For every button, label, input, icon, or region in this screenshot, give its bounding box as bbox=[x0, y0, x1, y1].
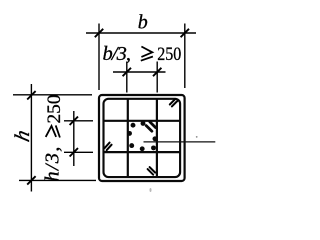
corner hatch middle-left cell bbox=[105, 143, 112, 151]
extension line h bottom bbox=[19, 179, 96, 181]
inner tie vertical leg 2 bbox=[156, 98, 158, 178]
dimension line b/3 bbox=[113, 71, 166, 73]
extension line h/3 bottom bbox=[64, 151, 93, 153]
tick h top bbox=[27, 91, 35, 99]
inner tie vertical leg 1 bbox=[127, 98, 129, 178]
label >= (rotated) bbox=[46, 125, 60, 137]
svg-text:b: b bbox=[138, 11, 148, 33]
extension line b/3 right bbox=[156, 62, 158, 93]
extension line h/3 top bbox=[64, 120, 93, 122]
column outer section outline bbox=[99, 95, 185, 181]
faint caption speck bbox=[150, 188, 152, 192]
core longitudinal bar dots bbox=[127, 121, 157, 151]
dimension line b bbox=[86, 32, 196, 34]
tick h bottom bbox=[27, 176, 35, 184]
corner hatch top-right cell bbox=[170, 99, 178, 106]
tick b left bbox=[95, 29, 103, 37]
tick b/3 left bbox=[123, 68, 131, 76]
svg-text:250: 250 bbox=[44, 95, 65, 124]
leader line to core bbox=[144, 141, 216, 143]
label >= horizontal bbox=[141, 47, 153, 61]
svg-text:h/3,: h/3, bbox=[41, 147, 63, 182]
dimension line h bbox=[30, 84, 32, 192]
svg-text:b/3,: b/3, bbox=[103, 43, 132, 65]
core hatch strokes (center cell) bbox=[146, 122, 155, 131]
tick h/3 bottom bbox=[70, 148, 78, 156]
tick b/3 right bbox=[153, 68, 161, 76]
perimeter tie (stirrup) bbox=[104, 99, 181, 177]
corner hatch bottom-middle cell bbox=[148, 167, 156, 175]
svg-text:250: 250 bbox=[157, 44, 181, 65]
inner tie horizontal leg 2 bbox=[103, 151, 181, 153]
extension line b left bbox=[98, 24, 100, 91]
tick b right bbox=[181, 29, 189, 37]
extension line b right bbox=[184, 24, 186, 89]
speck above leader bbox=[196, 136, 198, 138]
extension line b/3 left bbox=[126, 62, 128, 93]
inner tie horizontal leg 1 bbox=[103, 120, 181, 122]
extension line h top bbox=[13, 94, 92, 96]
tick h/3 top bbox=[70, 117, 78, 125]
dimension line h/3 bbox=[73, 111, 75, 166]
